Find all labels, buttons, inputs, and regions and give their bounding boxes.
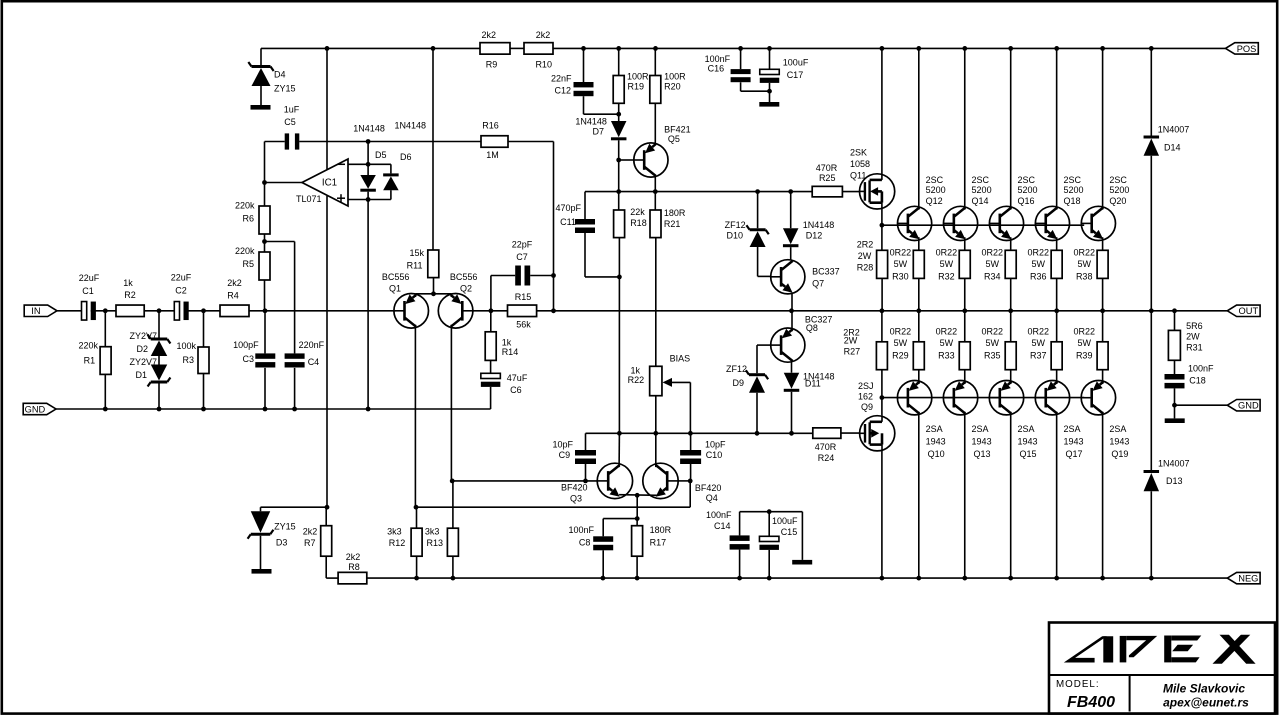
svg-text:220k: 220k <box>235 201 255 211</box>
wire plus input to GND <box>367 200 369 410</box>
zener D2 <box>129 311 170 356</box>
wire Q8 base down <box>757 345 771 373</box>
svg-text:BC556: BC556 <box>382 272 410 282</box>
svg-text:180R: 180R <box>664 208 686 218</box>
wire Q13 collector to NEG <box>964 412 966 578</box>
resistor R19 <box>613 48 649 103</box>
svg-text:Q18: Q18 <box>1063 196 1080 206</box>
svg-text:Mile Slavkovic: Mile Slavkovic <box>1163 682 1245 696</box>
wire op-amp V- supply <box>326 196 328 507</box>
svg-text:1943: 1943 <box>1109 437 1129 447</box>
svg-text:10pF: 10pF <box>552 439 573 449</box>
svg-text:R6: R6 <box>242 214 254 224</box>
wire Q20 emitter down <box>1102 237 1104 250</box>
svg-text:1k: 1k <box>630 365 640 375</box>
svg-text:5200: 5200 <box>972 185 992 195</box>
wire upper VAS node line <box>585 189 812 194</box>
wire Q3 collector up <box>618 433 620 467</box>
svg-text:Q15: Q15 <box>1020 449 1037 459</box>
wire Q15 collector to NEG <box>1010 412 1012 578</box>
svg-text:5W: 5W <box>940 259 954 269</box>
svg-text:100R: 100R <box>664 71 686 81</box>
resistor R10 <box>524 30 553 70</box>
svg-text:D11: D11 <box>805 379 821 389</box>
svg-text:R14: R14 <box>502 347 519 357</box>
svg-text:2SC: 2SC <box>926 175 944 185</box>
svg-text:R17: R17 <box>650 537 667 547</box>
svg-text:R15: R15 <box>515 292 532 302</box>
svg-text:0R22: 0R22 <box>1027 327 1049 337</box>
wire R22 bottom to bias line <box>655 396 657 434</box>
op-amp IC1 TL071 <box>296 159 348 206</box>
svg-text:BF420: BF420 <box>695 483 722 493</box>
wire main signal line from IN to Q1 base <box>57 310 395 312</box>
svg-text:R35: R35 <box>984 351 1001 361</box>
wire output line from Q2 base to OUT <box>473 310 1227 312</box>
svg-text:0R22: 0R22 <box>936 247 958 257</box>
resistor R8 <box>338 552 367 584</box>
svg-text:2SK: 2SK <box>850 148 867 158</box>
svg-text:100R: 100R <box>627 71 649 81</box>
svg-text:15k: 15k <box>409 248 424 258</box>
svg-text:3k3: 3k3 <box>425 527 440 537</box>
resistor R30 <box>890 247 925 310</box>
transistor Q13 2SA1943 <box>943 370 991 459</box>
wire Q1 collector to Q4 base <box>417 481 691 507</box>
svg-text:R33: R33 <box>938 351 955 361</box>
wire op-amp V+ supply <box>326 48 328 169</box>
svg-text:C17: C17 <box>787 70 804 80</box>
capacitor C15 <box>759 512 798 578</box>
svg-text:R18: R18 <box>630 218 647 228</box>
node output line junctions <box>489 308 1177 313</box>
svg-text:D10: D10 <box>726 231 743 241</box>
wire Q7 emitter to OUT <box>791 294 793 311</box>
title block email <box>1163 696 1249 710</box>
svg-text:Q13: Q13 <box>974 449 991 459</box>
svg-text:22nF: 22nF <box>551 74 572 84</box>
diode D14 <box>1144 48 1190 310</box>
port GND right <box>1227 400 1260 411</box>
svg-text:2k2: 2k2 <box>536 30 551 40</box>
svg-text:D4: D4 <box>274 70 286 80</box>
wire GND rail <box>56 408 491 410</box>
transistor Q12 2SC5200 <box>898 175 946 240</box>
svg-text:D13: D13 <box>1166 476 1183 486</box>
svg-text:2SA: 2SA <box>926 424 943 434</box>
resistor R9 <box>480 30 510 70</box>
svg-text:2W: 2W <box>858 251 872 261</box>
svg-text:0R22: 0R22 <box>982 247 1004 257</box>
svg-text:R4: R4 <box>227 291 239 301</box>
svg-text:2k2: 2k2 <box>481 30 496 40</box>
svg-text:100nF: 100nF <box>705 54 731 64</box>
svg-text:ZY15: ZY15 <box>274 521 296 531</box>
svg-text:22k: 22k <box>630 207 645 217</box>
svg-text:2SJ: 2SJ <box>858 381 874 391</box>
svg-text:R31: R31 <box>1186 343 1203 353</box>
svg-text:Q10: Q10 <box>928 449 945 459</box>
resistor R1 <box>78 311 111 409</box>
svg-text:5200: 5200 <box>1109 185 1129 195</box>
wire NEG supply rail <box>326 577 1227 579</box>
svg-text:D2: D2 <box>136 344 148 354</box>
svg-text:Q14: Q14 <box>972 196 989 206</box>
APEX logo <box>1064 635 1256 664</box>
svg-text:IC1: IC1 <box>322 178 337 189</box>
wire Q18 collector to POS <box>1056 48 1058 209</box>
potentiometer R22 BIAS <box>628 354 691 434</box>
svg-text:0R22: 0R22 <box>1027 247 1049 257</box>
resistor R32 <box>936 247 971 310</box>
title block author <box>1163 682 1245 696</box>
zener D4 <box>248 48 295 105</box>
svg-text:5W: 5W <box>894 338 908 348</box>
svg-text:2W: 2W <box>844 336 858 346</box>
svg-text:1N4148: 1N4148 <box>575 117 607 127</box>
port GND left <box>23 403 56 414</box>
transistor Q5 BF421 <box>634 103 691 191</box>
svg-text:2SA: 2SA <box>1063 424 1080 434</box>
svg-text:0R22: 0R22 <box>936 327 958 337</box>
transistor Q15 2SA1943 <box>989 370 1037 459</box>
svg-text:R39: R39 <box>1076 351 1093 361</box>
svg-text:220k: 220k <box>235 246 255 256</box>
svg-text:R28: R28 <box>857 262 874 272</box>
svg-text:D7: D7 <box>592 127 604 137</box>
svg-text:D12: D12 <box>806 231 823 241</box>
transistor Q7 BC337 <box>771 260 840 294</box>
capacitor C9 <box>552 433 596 481</box>
title block FB400 <box>1067 694 1115 711</box>
resistor R5 <box>235 242 270 311</box>
svg-text:Q5: Q5 <box>668 134 680 144</box>
resistor R31 <box>1168 311 1202 361</box>
wire C14 C15 top to ground <box>740 509 803 560</box>
resistor R37 <box>1027 311 1062 370</box>
wire emitter join line Q1 Q2 <box>415 291 451 297</box>
transistor Q10 2SA1943 <box>897 370 945 459</box>
capacitor C8 <box>568 519 637 579</box>
diode D6 <box>383 121 426 200</box>
resistor R35 <box>982 311 1017 370</box>
svg-text:10pF: 10pF <box>705 440 726 450</box>
resistor R13 <box>425 527 459 578</box>
svg-text:C5: C5 <box>284 117 296 127</box>
resistor R2 <box>116 278 144 317</box>
ground bar below C18 <box>1165 418 1185 423</box>
svg-text:Q3: Q3 <box>570 494 582 504</box>
svg-text:2SC: 2SC <box>972 175 990 185</box>
transistor Q14 2SC5200 <box>943 175 991 240</box>
svg-text:BF420: BF420 <box>561 483 588 493</box>
wire Q12 collector to POS <box>918 48 920 209</box>
svg-text:D6: D6 <box>400 152 412 162</box>
svg-text:220nF: 220nF <box>299 340 325 350</box>
wire Q17 collector to NEG <box>1056 412 1058 578</box>
capacitor C6 <box>481 360 528 409</box>
svg-text:Q11: Q11 <box>850 171 866 181</box>
wire NPN base line <box>882 224 1084 226</box>
svg-text:POS: POS <box>1237 44 1257 54</box>
svg-text:R12: R12 <box>389 538 406 548</box>
svg-text:Q20: Q20 <box>1109 196 1126 206</box>
svg-text:R38: R38 <box>1076 272 1093 282</box>
wire Q14 emitter down <box>964 237 966 250</box>
svg-text:R11: R11 <box>407 261 423 271</box>
capacitor C10 <box>680 433 726 483</box>
svg-text:100nF: 100nF <box>568 525 594 535</box>
resistor R20 <box>650 48 686 103</box>
svg-text:Q12: Q12 <box>926 196 943 206</box>
svg-text:Q1: Q1 <box>389 284 401 294</box>
zener D9 <box>726 364 768 433</box>
svg-text:R1: R1 <box>84 355 96 365</box>
svg-text:C15: C15 <box>781 527 798 537</box>
svg-text:1uF: 1uF <box>284 104 300 114</box>
svg-text:5W: 5W <box>1032 338 1046 348</box>
svg-text:56k: 56k <box>516 320 531 330</box>
wire Q18 emitter down <box>1056 237 1058 250</box>
resistor R18 <box>614 192 647 434</box>
wire to GND right flag <box>1175 404 1228 406</box>
resistor R27 <box>843 311 887 370</box>
wire POS supply rail <box>261 47 1226 49</box>
resistor R28 <box>857 239 888 310</box>
diode D13 <box>1144 311 1190 578</box>
svg-text:1N4148: 1N4148 <box>803 220 835 230</box>
svg-text:C6: C6 <box>510 385 522 395</box>
svg-text:R10: R10 <box>535 60 552 70</box>
svg-text:D5: D5 <box>375 150 387 160</box>
transistor Q16 2SC5200 <box>989 175 1037 240</box>
svg-text:3k3: 3k3 <box>387 527 402 537</box>
svg-text:R32: R32 <box>938 272 955 282</box>
svg-text:5W: 5W <box>940 338 954 348</box>
svg-text:Q2: Q2 <box>460 284 472 294</box>
resistor R7 <box>303 507 332 578</box>
svg-text:R16: R16 <box>482 121 499 131</box>
svg-text:FB400: FB400 <box>1067 694 1115 711</box>
capacitor C14 <box>706 510 750 578</box>
resistor R12 <box>387 527 422 578</box>
resistor R21 <box>650 192 686 367</box>
resistor R15 <box>508 292 537 330</box>
resistor R16 <box>481 121 508 161</box>
svg-text:2k2: 2k2 <box>227 278 242 288</box>
svg-text:100pF: 100pF <box>233 340 259 350</box>
svg-text:R2: R2 <box>124 290 136 300</box>
svg-text:0R22: 0R22 <box>890 247 912 257</box>
wire Q1 collector down <box>414 325 419 529</box>
svg-text:R27: R27 <box>844 347 861 357</box>
svg-text:D9: D9 <box>732 378 744 388</box>
diode D11 <box>784 362 835 433</box>
transistor Q8 BC327 <box>771 314 833 362</box>
svg-text:1943: 1943 <box>972 437 992 447</box>
svg-text:C10: C10 <box>706 450 723 460</box>
svg-text:R3: R3 <box>182 355 194 365</box>
wire R16 to output line <box>508 142 556 311</box>
capacitor C12 <box>551 48 619 114</box>
transistor Q17 2SA1943 <box>1035 370 1083 459</box>
capacitor C5 <box>265 104 482 149</box>
svg-text:C2: C2 <box>175 286 187 296</box>
svg-text:100uF: 100uF <box>783 58 809 68</box>
svg-text:Q17: Q17 <box>1065 449 1082 459</box>
svg-text:470R: 470R <box>816 163 838 173</box>
svg-text:R9: R9 <box>486 60 498 70</box>
svg-text:ZY2V7: ZY2V7 <box>129 357 157 367</box>
wire Q2 collector to Q3 base line <box>453 479 598 484</box>
transistor Q19 2SA1943 <box>1081 370 1129 459</box>
svg-text:ZY2V7: ZY2V7 <box>129 331 157 341</box>
diode D7 <box>575 117 626 141</box>
resistor R33 <box>936 311 971 370</box>
svg-text:0R22: 0R22 <box>1073 247 1095 257</box>
svg-text:1943: 1943 <box>1018 437 1038 447</box>
svg-text:2R2: 2R2 <box>857 239 874 249</box>
resistor R34 <box>982 247 1017 310</box>
svg-text:Q8: Q8 <box>806 323 818 333</box>
svg-text:1N4148: 1N4148 <box>353 124 385 134</box>
resistor R36 <box>1027 247 1062 310</box>
resistor R14 <box>485 311 518 361</box>
capacitor C3 <box>233 311 275 409</box>
capacitor C11 <box>555 192 621 280</box>
svg-text:2k2: 2k2 <box>346 552 361 562</box>
capacitor C18 <box>1165 360 1215 418</box>
resistor R25 <box>812 163 842 197</box>
svg-text:BIAS: BIAS <box>670 354 691 364</box>
transistor Q18 2SC5200 <box>1035 175 1083 240</box>
svg-text:NEG: NEG <box>1238 574 1258 584</box>
svg-text:2k2: 2k2 <box>303 527 318 537</box>
svg-text:5W: 5W <box>986 259 1000 269</box>
svg-text:BC556: BC556 <box>450 272 478 282</box>
svg-text:apex@eunet.rs: apex@eunet.rs <box>1163 696 1249 710</box>
port OUT <box>1227 305 1260 316</box>
zener D10 <box>725 192 771 277</box>
node NEG rail junctions <box>414 576 1154 581</box>
port IN <box>24 305 57 316</box>
svg-text:Q16: Q16 <box>1018 196 1035 206</box>
wire Q16 emitter down <box>1010 237 1012 250</box>
svg-text:ZY15: ZY15 <box>274 84 296 94</box>
resistor R38 <box>1073 247 1108 310</box>
svg-text:5200: 5200 <box>1063 185 1083 195</box>
svg-text:5W: 5W <box>1077 259 1091 269</box>
resistor R3 <box>176 311 209 409</box>
svg-text:2SC: 2SC <box>1063 175 1081 185</box>
zener D1 <box>129 356 170 409</box>
svg-text:C11: C11 <box>560 217 576 227</box>
svg-text:1N4007: 1N4007 <box>1158 125 1190 135</box>
svg-text:1N4148: 1N4148 <box>395 121 427 131</box>
resistor R6 <box>235 183 270 242</box>
node R5 R6 junction <box>262 239 295 244</box>
capacitor C7 <box>491 240 554 311</box>
wire Q11 source down <box>880 209 885 250</box>
svg-text:100k: 100k <box>176 341 196 351</box>
svg-text:C14: C14 <box>714 521 731 531</box>
svg-text:GND: GND <box>25 404 46 414</box>
svg-text:2SA: 2SA <box>1109 424 1126 434</box>
transistor Q2 BC556 <box>438 272 477 328</box>
svg-text:1943: 1943 <box>926 437 946 447</box>
svg-text:2SA: 2SA <box>1018 424 1035 434</box>
svg-text:R19: R19 <box>628 82 645 92</box>
node GND rail junctions <box>103 407 371 412</box>
wire Q9 source down <box>881 451 883 578</box>
svg-text:5W: 5W <box>986 338 1000 348</box>
transistor Q4 BF420 <box>643 463 722 503</box>
wire Q20 collector to POS <box>1102 48 1104 209</box>
svg-text:R20: R20 <box>664 82 681 92</box>
svg-text:5W: 5W <box>1032 259 1046 269</box>
svg-text:C3: C3 <box>242 354 254 364</box>
svg-text:C16: C16 <box>708 64 725 74</box>
svg-text:R22: R22 <box>628 375 645 385</box>
wire Q2 collector down <box>450 325 455 529</box>
svg-text:R21: R21 <box>664 219 681 229</box>
svg-text:C12: C12 <box>554 86 571 96</box>
port NEG <box>1227 572 1260 583</box>
svg-text:470pF: 470pF <box>555 203 581 213</box>
wire Q8 emitter to OUT <box>791 311 793 332</box>
ground bar below C17 <box>759 102 779 107</box>
diode D12 <box>783 192 834 260</box>
svg-text:ZF12: ZF12 <box>726 364 747 374</box>
svg-text:C8: C8 <box>579 537 591 547</box>
resistor R17 <box>632 519 672 579</box>
resistor R29 <box>890 311 925 370</box>
svg-text:2SC: 2SC <box>1109 175 1127 185</box>
svg-text:R8: R8 <box>348 562 360 572</box>
svg-text:1M: 1M <box>486 150 499 160</box>
svg-text:D3: D3 <box>276 537 288 547</box>
svg-text:D14: D14 <box>1164 143 1181 153</box>
svg-text:C1: C1 <box>82 286 94 296</box>
wire op-amp output to feedback node <box>265 182 303 184</box>
wire Q14 collector to POS <box>964 48 966 209</box>
svg-text:Q7: Q7 <box>812 278 824 288</box>
svg-text:2W: 2W <box>1186 331 1200 341</box>
svg-text:0R22: 0R22 <box>890 327 912 337</box>
ground bar below D3 <box>252 569 272 574</box>
svg-text:R24: R24 <box>818 453 835 463</box>
svg-text:Q19: Q19 <box>1111 449 1128 459</box>
svg-text:162: 162 <box>858 392 873 402</box>
svg-text:0R22: 0R22 <box>982 327 1004 337</box>
svg-text:100nF: 100nF <box>706 510 732 520</box>
svg-text:R29: R29 <box>892 351 909 361</box>
wire Q19 collector to NEG <box>1102 412 1104 578</box>
svg-text:1k: 1k <box>123 278 133 288</box>
capacitor C2 <box>171 273 192 321</box>
svg-text:47uF: 47uF <box>507 373 528 383</box>
resistor R39 <box>1073 311 1108 370</box>
svg-text:C4: C4 <box>308 357 320 367</box>
svg-text:5200: 5200 <box>1018 185 1038 195</box>
svg-text:R7: R7 <box>304 538 316 548</box>
svg-text:OUT: OUT <box>1239 306 1259 316</box>
svg-text:R13: R13 <box>426 538 443 548</box>
wire Q16 collector to POS <box>1010 48 1012 209</box>
ground bar at C15 <box>792 560 812 565</box>
wire D7 to Q5 base <box>616 140 633 194</box>
wire Q11 drain to POS <box>881 48 883 173</box>
